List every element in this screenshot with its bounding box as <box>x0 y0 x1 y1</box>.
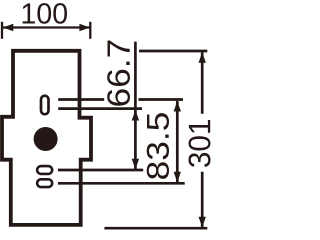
arrowhead 301 down <box>199 217 206 228</box>
mounting oval lower <box>37 179 52 187</box>
dim line 301 <box>201 52 204 227</box>
width dim extension tick right <box>89 22 91 39</box>
dim line 83.5 <box>176 101 179 182</box>
slot top leader <box>58 98 183 101</box>
top leader line <box>139 50 207 53</box>
oval bottom leader <box>58 182 185 185</box>
label 301 <box>189 120 211 167</box>
mounting plate outline <box>2 51 91 225</box>
mounting oval upper <box>37 166 52 174</box>
screw slot <box>41 96 49 115</box>
arrowhead 83.5 up <box>174 101 181 112</box>
width dim extension tick left <box>1 22 3 39</box>
dim line 66.7 <box>134 42 137 109</box>
slot bottom leader <box>58 107 142 110</box>
label 100 <box>23 3 67 24</box>
label 83.5 <box>147 113 169 179</box>
dim line middle (slot bottom to oval top) <box>134 110 137 169</box>
arrowhead 301 up <box>199 52 206 63</box>
arrowhead middle dim down <box>132 159 139 170</box>
bottom leader <box>104 227 207 230</box>
wiring knockout hole <box>34 127 58 151</box>
width dim line <box>3 26 90 28</box>
arrowhead 83.5 down <box>174 172 181 183</box>
label 66.7 <box>107 41 130 106</box>
oval top leader <box>58 169 143 172</box>
arrowhead middle dim up <box>132 110 139 121</box>
arrowhead width left <box>3 24 14 31</box>
arrowhead width right <box>79 24 90 31</box>
